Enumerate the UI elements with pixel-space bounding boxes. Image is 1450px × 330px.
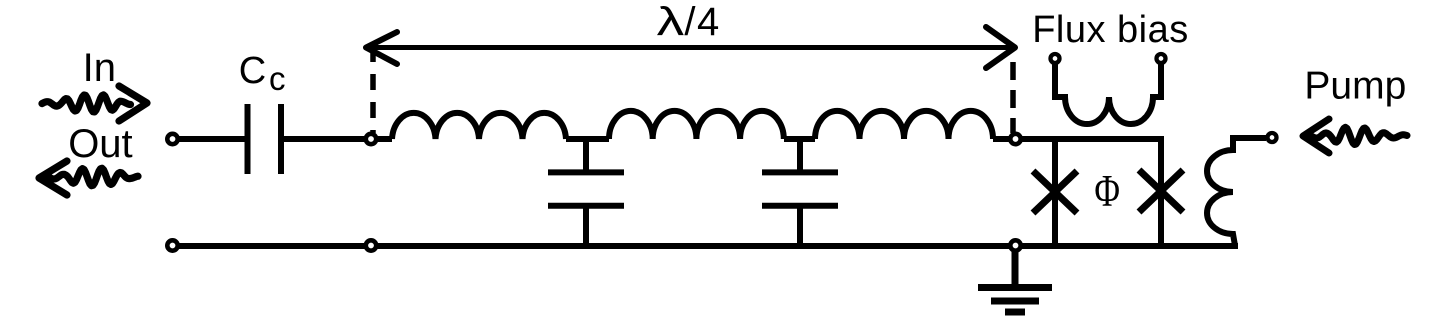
port Out arrow xyxy=(39,161,138,195)
node A xyxy=(366,134,376,144)
svg-text:C: C xyxy=(239,50,266,92)
label flux Phi xyxy=(1094,165,1120,216)
wire bottom rail xyxy=(174,243,1238,249)
inductor L3 xyxy=(815,111,993,139)
pump terminal xyxy=(1268,133,1277,142)
pump coupling inductor Lp xyxy=(1207,138,1266,246)
svg-text:λ: λ xyxy=(657,0,685,44)
wire L3 to SQUID top rail xyxy=(993,136,1164,142)
wire L1 to L2 xyxy=(566,136,609,142)
capacitor Cc xyxy=(248,104,282,174)
svg-text:Φ: Φ xyxy=(1094,165,1120,216)
svg-text:/4: /4 xyxy=(684,0,720,44)
svg-text:c: c xyxy=(269,60,286,97)
wire top-left rail xyxy=(174,136,245,142)
node B bottom xyxy=(1010,240,1020,250)
ground xyxy=(978,245,1052,312)
Josephson junction J1 xyxy=(1033,171,1077,213)
svg-text:Flux bias: Flux bias xyxy=(1032,9,1189,51)
port Pump arrow xyxy=(1303,119,1407,153)
wire L2 to L3 xyxy=(784,136,815,142)
inductor L1 xyxy=(392,113,566,139)
dashed extension line right xyxy=(1010,62,1016,133)
capacitor C1 xyxy=(548,139,624,246)
svg-text:In: In xyxy=(83,46,116,90)
dashed extension line left xyxy=(370,46,376,133)
dimension arrow lambda/4 xyxy=(366,27,1015,68)
svg-text:Out: Out xyxy=(68,122,132,166)
node terminal left-top xyxy=(167,134,177,144)
node B top xyxy=(1010,134,1020,144)
port In arrow xyxy=(42,86,147,121)
flux bias terminal right xyxy=(1157,54,1166,63)
wire Cc to node A xyxy=(281,136,371,142)
SQUID left branch xyxy=(1052,139,1058,246)
wire node A to L1 xyxy=(371,136,392,142)
SQUID right branch xyxy=(1158,139,1164,246)
inductor L2 xyxy=(609,111,784,139)
flux bias terminal left xyxy=(1051,54,1060,63)
node bottom mid xyxy=(366,240,376,250)
svg-text:Pump: Pump xyxy=(1304,65,1406,108)
label lambda/4 xyxy=(657,0,685,44)
Josephson junction J2 xyxy=(1139,170,1183,212)
flux bias coil xyxy=(1055,64,1161,124)
node terminal left-bottom xyxy=(167,240,177,250)
capacitor C2 xyxy=(762,139,838,246)
